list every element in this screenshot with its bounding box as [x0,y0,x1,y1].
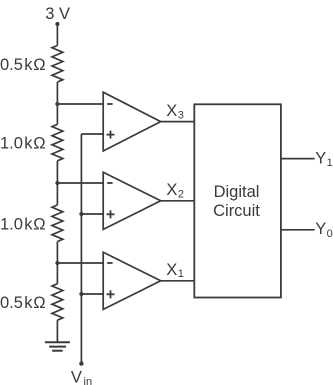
svg-text:1: 1 [327,157,333,169]
wire X2 output [161,200,195,202]
svg-text:0.5: 0.5 [0,56,23,74]
resistor R2 1.0k [52,124,63,161]
svg-text:Y: Y [315,220,326,238]
svg-text:kΩ: kΩ [24,134,46,152]
wire [56,320,58,342]
svg-text:0.5: 0.5 [0,294,23,312]
svg-text:0: 0 [327,228,333,240]
svg-text:kΩ: kΩ [24,215,46,233]
wire [57,182,103,184]
svg-text:1.0: 1.0 [0,134,23,152]
svg-text:in: in [84,376,93,385]
svg-text:2: 2 [178,188,184,200]
resistor R3 1.0k [52,205,63,242]
pin plus comparator 3 [107,290,115,298]
op-amp comparator 1 (top) [103,92,161,151]
pin minus comparator 1 [107,103,112,105]
wire X3 output [161,121,195,123]
node C (ladder tap 3) [55,261,59,265]
node (Vin tap 2) [79,212,83,216]
op-amp comparator 3 (bottom) [103,252,161,309]
pin plus comparator 2 [107,210,115,218]
digital circuit block U1 [194,104,281,297]
resistor R4 0.5k [52,284,63,321]
wire [57,103,103,105]
svg-text:3: 3 [178,109,184,121]
svg-text:kΩ: kΩ [24,294,46,312]
resistor R1 0.5k [52,46,63,83]
svg-text:X: X [166,102,177,120]
wire [56,161,58,205]
node A (ladder tap 1) [55,102,59,106]
wire [81,213,103,215]
svg-text:Circuit: Circuit [213,202,260,220]
node Vin terminal [79,361,83,365]
op-amp comparator 2 (middle) [103,172,161,229]
svg-text:3 V: 3 V [45,5,70,23]
wire [56,82,58,124]
wire X1 output [161,280,195,282]
svg-text:X: X [166,181,177,199]
node (Vin tap 3) [79,292,83,296]
wire [57,262,103,264]
svg-text:1: 1 [178,268,184,280]
pin plus comparator 1 [107,131,115,139]
wire Y1 output [281,158,315,160]
node 3V terminal [55,22,59,26]
wire [56,242,58,284]
wire [81,133,103,135]
ground [45,342,70,351]
svg-text:Digital: Digital [214,183,260,201]
pin minus comparator 3 [107,262,112,264]
svg-text:Y: Y [315,149,326,167]
wire Vin vertical [80,134,82,364]
wire Y0 output [281,229,315,231]
wire [81,293,103,295]
wire [56,24,58,46]
node B (ladder tap 2) [55,181,59,185]
svg-text:V: V [71,369,82,385]
svg-text:X: X [166,261,177,279]
svg-text:kΩ: kΩ [24,56,46,74]
svg-text:1.0: 1.0 [0,215,23,233]
pin minus comparator 2 [107,182,112,184]
